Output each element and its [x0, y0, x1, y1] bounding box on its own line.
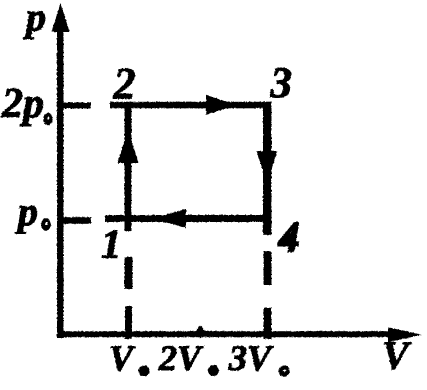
arrow up on 1-2: [118, 129, 139, 163]
p axis (vertical): [52, 3, 70, 338]
arrow right on 2-3: [206, 95, 237, 115]
svg-text:V: V: [382, 333, 412, 378]
svg-text:2: 2: [113, 59, 136, 108]
svg-text:p: p: [15, 189, 38, 234]
wire 2-3 (top isobar): [110, 102, 271, 109]
label 2p0: [1, 81, 53, 127]
svg-text:3V: 3V: [228, 338, 274, 378]
wire 4-1 (bottom isobar): [105, 215, 271, 222]
label 2V0: [158, 338, 219, 378]
arrow down on 3-4: [257, 151, 278, 183]
svg-text:V: V: [109, 338, 136, 378]
arrow left on 4-1: [152, 209, 186, 228]
V axis (horizontal): [57, 327, 422, 342]
svg-text:1: 1: [101, 221, 122, 267]
tick 2p0 on p axis: [58, 103, 91, 109]
diamond dot at 2V0 on V axis: [196, 325, 206, 339]
label V0: [109, 338, 150, 378]
wire 1-2 (left isochor): [125, 102, 132, 231]
svg-text:3: 3: [270, 60, 293, 107]
dashed line below node 4: [264, 251, 272, 339]
label 3V0: [228, 338, 290, 378]
svg-text:2p: 2p: [1, 81, 44, 127]
svg-text:2V: 2V: [158, 338, 204, 378]
label p0: [15, 189, 51, 234]
tick p0 on p axis: [58, 217, 91, 224]
wire 3-4 (right isochor): [263, 102, 272, 235]
dashed line below node 1: [125, 257, 133, 339]
svg-text:p: p: [23, 0, 46, 40]
